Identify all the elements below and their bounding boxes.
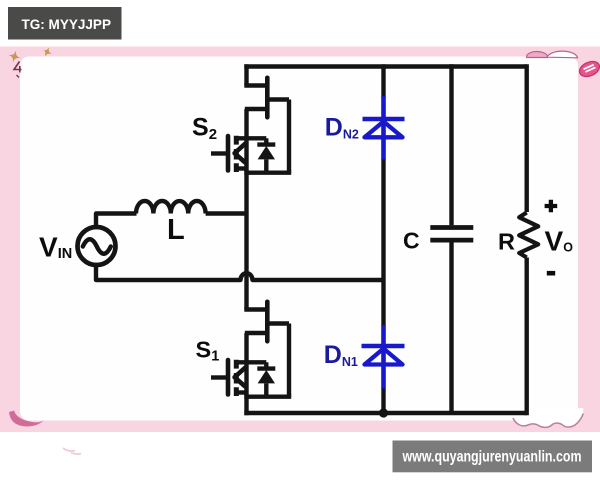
diode DN1 cathode bar xyxy=(362,344,405,348)
voltage source VIN xyxy=(78,227,116,265)
S1 body diode cathode bar xyxy=(257,366,275,370)
wire VIN top to inductor xyxy=(96,214,137,228)
diode DN1 blue lead xyxy=(381,325,386,389)
diode leg wire: black middle segment xyxy=(381,159,385,327)
capacitor C plates xyxy=(430,228,473,241)
S1 body diode cathode stub xyxy=(264,362,268,368)
wire VIN bottom with hop over switch leg xyxy=(96,265,384,281)
white card xyxy=(20,57,578,421)
S2 source contact xyxy=(236,166,246,170)
wire right leg upper (R leg) xyxy=(525,64,529,212)
decoration: deep pink striped blob heart xyxy=(577,59,600,80)
S1 body diode triangle xyxy=(258,370,275,383)
wire right leg lower xyxy=(525,258,529,416)
decoration: gold sparkle star 2 xyxy=(40,45,54,59)
label minus xyxy=(547,271,555,276)
S2 source bar xyxy=(244,170,291,174)
S2 drain contact xyxy=(236,136,266,140)
S1 drain contact xyxy=(236,360,266,364)
S2 gate bar xyxy=(226,136,231,171)
S2 body diode cathode bar xyxy=(257,142,275,146)
S2 channel segments xyxy=(234,136,239,172)
inductor L xyxy=(136,201,206,214)
TG label box xyxy=(8,7,122,40)
decoration: cloud bumps on card top right xyxy=(526,51,547,57)
wire top rail xyxy=(244,64,526,68)
diode DN2 cathode bar xyxy=(363,117,405,121)
S1 drain jog xyxy=(244,307,267,311)
VIN sine symbol xyxy=(83,239,111,254)
URL bar xyxy=(393,441,593,473)
S2 arm E xyxy=(245,107,267,111)
S1 left vertical xyxy=(244,333,248,397)
wire bottom rail xyxy=(244,411,526,415)
svg-text:TG: MYYJJPP: TG: MYYJJPP xyxy=(22,17,112,32)
S2 left vertical xyxy=(244,109,248,173)
svg-text:www.quyangjurenyuanlin.com: www.quyangjurenyuanlin.com xyxy=(402,449,582,466)
switch leg wire: top rail to S2 xyxy=(244,64,248,85)
S2 gate lead xyxy=(211,151,226,155)
decoration: gold sparkle star 1 xyxy=(7,49,22,64)
svg-text:C: C xyxy=(403,228,420,254)
switch leg wire: S1 source to bottom rail xyxy=(244,397,248,416)
S1 source bar xyxy=(244,395,291,399)
svg-text:R: R xyxy=(498,229,515,255)
S2 body diode anode stub xyxy=(264,159,268,172)
S2 drain jog xyxy=(244,83,267,87)
S2 substrate arrow xyxy=(235,144,245,163)
decoration: crescent bottom left xyxy=(9,411,44,427)
switch leg wire: S2 source to S1 drain (through inductor tap and hop) xyxy=(244,173,248,310)
capacitor C leg upper xyxy=(449,64,453,225)
diode DN2 blue lead xyxy=(381,96,386,160)
S2 body diode cathode stub xyxy=(264,138,268,144)
S2 drain bar B xyxy=(265,78,270,118)
S2 loop right side xyxy=(287,100,291,173)
S1 substrate arrow xyxy=(235,368,245,387)
diode leg wire: black bottom segment xyxy=(381,388,385,414)
wire inductor to switch leg xyxy=(206,211,247,215)
diode leg wire: black top segment xyxy=(381,64,385,97)
decoration: maroon tick xyxy=(17,75,20,78)
S1 body diode anode stub xyxy=(264,383,268,396)
transistor S1 (MOSFET with body diode) xyxy=(211,302,291,397)
transistor S2 (MOSFET with body diode) xyxy=(211,78,291,173)
S2 body diode triangle xyxy=(258,146,275,159)
S1 gate lead xyxy=(211,375,226,379)
decoration: maroon squiggle mark xyxy=(14,62,22,73)
decoration: faint pink dashes below card xyxy=(63,448,81,454)
S1 drain bar B xyxy=(265,302,270,342)
S1 arm to loop xyxy=(267,321,289,325)
capacitor C leg lower xyxy=(449,242,453,413)
node junction dot at diode leg / bottom rail xyxy=(379,408,388,417)
S1 arm E xyxy=(245,331,267,335)
S1 gate bar xyxy=(226,360,231,395)
resistor R zigzag xyxy=(519,213,538,258)
decoration: white scalloped cloud bottom right xyxy=(513,408,583,427)
diode DN2 triangle xyxy=(365,122,403,138)
S1 loop right side xyxy=(287,324,291,397)
S1 source contact xyxy=(236,390,246,394)
S1 channel segments xyxy=(234,360,239,396)
svg-text:L: L xyxy=(167,214,185,246)
diode DN1 triangle xyxy=(365,349,403,365)
S2 arm to loop xyxy=(267,97,289,101)
label plus xyxy=(545,200,558,212)
